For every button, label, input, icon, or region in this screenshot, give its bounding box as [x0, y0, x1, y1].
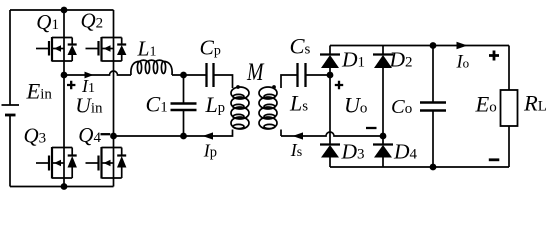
diode D2	[373, 46, 393, 137]
svg-text:Cs: Cs	[290, 34, 311, 59]
wire node B to Q4 drain	[113, 136, 115, 148]
wire Q1 source to node A	[63, 61, 65, 75]
node D junction	[180, 133, 187, 140]
node A junction	[61, 72, 68, 79]
svg-text:M: M	[246, 57, 265, 86]
svg-text:Eo: Eo	[475, 92, 497, 117]
svg-text:Ein: Ein	[26, 79, 53, 104]
wire node C to Cp	[172, 74, 207, 76]
svg-text:Ls: Ls	[289, 91, 308, 116]
resistor RL	[501, 90, 518, 126]
svg-text:D2: D2	[389, 48, 413, 72]
node bottom rail / Q3 junction	[61, 183, 68, 190]
diode D1	[320, 46, 340, 76]
diode D3	[320, 145, 340, 168]
inductor Ls secondary coil	[259, 84, 281, 136]
svg-text:Uo: Uo	[344, 93, 367, 118]
svg-text:D4: D4	[393, 140, 418, 164]
node Co bottom junction	[430, 164, 437, 171]
wire node B to node D	[114, 135, 184, 137]
label + of Uo	[335, 81, 343, 89]
node AC1 junction	[327, 72, 334, 79]
wire left rail upper	[9, 10, 11, 105]
diode D4	[373, 136, 393, 167]
wire rectifier top rail	[330, 45, 509, 47]
wire node A to L1 with hop over Q2 leg	[64, 71, 131, 75]
transistor Q4	[86, 147, 127, 179]
node B junction	[110, 133, 117, 140]
capacitor Cs	[298, 63, 306, 87]
svg-text:Q4: Q4	[78, 123, 101, 147]
capacitor Co	[420, 46, 446, 168]
svg-text:Co: Co	[391, 96, 412, 118]
wire Q2 drain leg	[113, 10, 115, 38]
battery Ein	[2, 105, 20, 115]
wire left rail lower	[9, 115, 11, 187]
svg-text:Q2: Q2	[81, 9, 104, 33]
label + of Uin	[67, 81, 75, 89]
wire Ls bottom to rectifier node AC2 with hop over D1-D3 leg	[281, 132, 383, 136]
node Co top junction	[430, 42, 437, 49]
label - of output	[489, 158, 500, 161]
svg-text:C1: C1	[146, 92, 168, 117]
label - of Uo	[366, 127, 377, 129]
arrow current Io	[457, 42, 468, 50]
node C junction	[180, 72, 187, 79]
svg-text:Cp: Cp	[200, 36, 221, 60]
label - of Uin	[101, 133, 111, 135]
wire node D to Lp bottom	[184, 130, 233, 137]
node top rail / Q1 drain junction	[61, 7, 68, 14]
wire bottom-left rail	[10, 186, 114, 188]
svg-text:Io: Io	[456, 53, 470, 73]
wire AC1 down through hop to D3	[329, 75, 331, 145]
transistor Q2	[86, 37, 127, 62]
wire Q1 drain leg	[63, 10, 65, 38]
svg-text:Lp: Lp	[205, 92, 226, 117]
svg-text:Is: Is	[290, 140, 302, 160]
inductor L1	[131, 60, 172, 75]
svg-text:L1: L1	[137, 37, 157, 61]
polarity dot Ls	[272, 85, 276, 89]
svg-text:RL: RL	[523, 91, 547, 116]
svg-text:Q1: Q1	[36, 10, 59, 34]
node AC2 junction	[380, 133, 387, 140]
polarity dot Lp	[236, 85, 240, 89]
arrow current I1	[85, 72, 94, 79]
wire right edge top	[508, 46, 510, 91]
wire top-left rail	[10, 9, 114, 11]
arrow current Is	[293, 132, 304, 139]
wire Ls top to Cs	[281, 75, 298, 84]
wire node A to Q3 drain	[63, 75, 65, 148]
capacitor C1	[171, 75, 197, 136]
wire Q3 source to bottom rail	[63, 178, 65, 187]
wire Cs to rectifier node AC1	[306, 74, 331, 76]
label + of output	[489, 51, 499, 61]
svg-text:D1: D1	[341, 48, 365, 72]
wire Q4 source to bottom rail	[113, 178, 115, 187]
svg-text:D3: D3	[341, 140, 365, 164]
svg-text:Q3: Q3	[24, 124, 47, 148]
transistor Q1	[36, 37, 77, 62]
wire Q2 source leg down to node B	[113, 61, 115, 136]
svg-text:Uin: Uin	[75, 94, 103, 118]
wire right edge bottom	[508, 126, 510, 167]
transistor Q3	[36, 147, 77, 179]
wire rectifier bottom rail	[330, 166, 509, 168]
wire Cp to Lp top	[214, 75, 233, 84]
svg-text:Ip: Ip	[203, 141, 217, 161]
arrow current Ip	[203, 132, 214, 139]
inductor Lp primary coil	[231, 84, 249, 129]
capacitor Cp	[207, 63, 214, 87]
